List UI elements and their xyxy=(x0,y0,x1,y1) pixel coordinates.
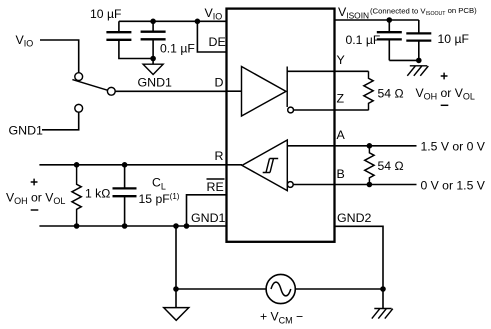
IC box U1 xyxy=(227,9,335,242)
wire D input xyxy=(115,90,226,92)
wire VCM rail right segment xyxy=(295,288,383,290)
driver output bar xyxy=(286,67,288,108)
wire B xyxy=(293,184,416,186)
resistor 54 ohm Y-Z xyxy=(364,71,373,110)
capacitor 0.1uF left: plates xyxy=(141,32,166,40)
wire GND1 to switch xyxy=(42,112,79,130)
svg-text:GND1: GND1 xyxy=(138,76,173,90)
svg-text:D: D xyxy=(215,76,224,90)
capacitor CL plates xyxy=(113,188,137,196)
label plus right xyxy=(441,73,448,80)
wire R line xyxy=(39,164,226,166)
svg-text:B: B xyxy=(337,167,345,181)
label plus left xyxy=(31,179,38,186)
svg-text:10 µF: 10 µF xyxy=(438,32,469,46)
wire D inside xyxy=(227,90,242,92)
resistor 54 ohm A-B xyxy=(365,146,374,185)
node rail/RE branch xyxy=(184,223,190,229)
svg-text:GND1: GND1 xyxy=(191,211,226,225)
capacitor 0.1uF left: bottom lead xyxy=(152,40,154,64)
wire A xyxy=(287,145,416,147)
wire caps bottom right xyxy=(389,59,419,61)
svg-text:GND1: GND1 xyxy=(9,124,44,138)
svg-text:R: R xyxy=(215,149,224,163)
svg-text:DE: DE xyxy=(209,35,226,49)
svg-text:1.5 V or 0 V: 1.5 V or 0 V xyxy=(421,139,486,153)
wire VIO to switch xyxy=(40,40,79,73)
svg-text:54 Ω: 54 Ω xyxy=(378,86,404,100)
node R/CL xyxy=(122,162,128,168)
earth ground isolated side top xyxy=(407,66,428,76)
switch blade xyxy=(72,80,107,91)
node rail/CL xyxy=(122,223,128,229)
capacitor 10uF right plates xyxy=(406,33,431,40)
svg-text:Y: Y xyxy=(337,53,345,67)
resistor 1k xyxy=(72,165,81,226)
earth ground GND2 xyxy=(372,309,393,319)
node VCM rail left xyxy=(173,286,179,292)
receiver inverting bubble xyxy=(287,182,293,188)
wire R inside xyxy=(227,164,243,166)
source VCM sine xyxy=(271,282,291,296)
node A/54 xyxy=(367,143,373,149)
capacitor 10uF right leads xyxy=(418,20,420,60)
hysteresis symbol xyxy=(263,159,279,173)
node rail/1k xyxy=(74,223,80,229)
wire Y xyxy=(287,70,368,72)
wire Z xyxy=(294,109,369,111)
svg-text:RE: RE xyxy=(207,180,224,194)
svg-text:GND2: GND2 xyxy=(337,211,372,225)
svg-text:10 µF: 10 µF xyxy=(90,7,121,21)
wire GND2 xyxy=(335,226,384,308)
svg-text:0 V or 1.5 V: 0 V or 1.5 V xyxy=(421,178,486,192)
driver inverting bubble xyxy=(288,107,294,113)
capacitor CL leads xyxy=(124,165,126,226)
wire DE tie to VIO xyxy=(197,21,226,52)
wire VIO rail top-left xyxy=(119,20,227,22)
capacitor 0.1uF left: top lead xyxy=(152,21,154,31)
svg-text:1 kΩ: 1 kΩ xyxy=(85,187,110,201)
wire GND1 rail xyxy=(39,225,226,227)
svg-text:A: A xyxy=(337,128,346,142)
driver U1A triangle xyxy=(242,67,287,117)
node VISOIN/0.1uF xyxy=(387,17,393,23)
wire VCM branch left xyxy=(175,226,177,289)
source VCM circle xyxy=(266,274,295,303)
node: rail / DE branch xyxy=(195,19,201,25)
wire VCM rail left segment xyxy=(176,288,266,290)
label minus left xyxy=(31,209,39,211)
svg-text:Z: Z xyxy=(337,92,345,106)
capacitor 10uF left: plates xyxy=(106,32,131,40)
node B/54 xyxy=(367,182,373,188)
node GND2/VCM rail xyxy=(380,286,386,292)
ground triangle bottom left xyxy=(175,289,177,308)
node: caps bottom junction xyxy=(150,56,156,62)
svg-text:54 Ω: 54 Ω xyxy=(378,159,404,173)
svg-text:0.1 µF: 0.1 µF xyxy=(346,33,381,47)
ground triangle symbol xyxy=(164,308,189,321)
label minus right xyxy=(441,104,449,106)
node: rail / 0.1uF top xyxy=(150,19,156,25)
node rail/VCM branch xyxy=(173,223,179,229)
switch pole VIO contact xyxy=(75,73,83,81)
capacitor 0.1uF right plates xyxy=(377,32,402,39)
receiver U1B triangle xyxy=(242,140,287,191)
capacitor 0.1uF right leads xyxy=(388,20,390,60)
wire VISOIN xyxy=(335,19,419,21)
switch common contact xyxy=(107,87,115,95)
capacitor 10uF left: top lead xyxy=(118,21,120,32)
ground GND1 triangle under caps xyxy=(143,64,163,74)
node R/1k xyxy=(74,162,80,168)
switch GND1 contact xyxy=(75,104,83,112)
capacitor 10uF left: bottom lead xyxy=(119,41,153,59)
wire RE tie to GND1 xyxy=(187,195,227,226)
node caps bottom right xyxy=(416,58,422,64)
svg-text:0.1 µF: 0.1 µF xyxy=(160,42,195,56)
